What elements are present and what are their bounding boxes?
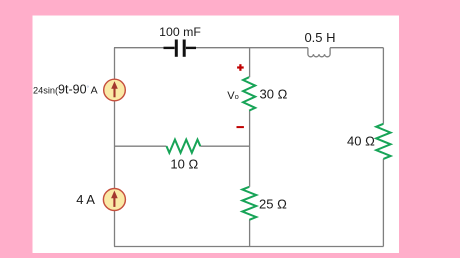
wire middle vertical top segment <box>249 48 251 77</box>
resistor R 25 ohm <box>242 187 256 220</box>
inductor L1 0.5 H <box>308 48 330 57</box>
svg-text:10 Ω: 10 Ω <box>170 156 198 171</box>
svg-text:40 Ω: 40 Ω <box>347 134 375 149</box>
plus sign polarity mark <box>237 64 244 71</box>
wire left vertical <box>114 48 116 247</box>
capacitor C1 100 mF <box>164 40 197 57</box>
wire right vertical upper <box>382 48 384 124</box>
resistor R 40 ohm <box>376 124 390 159</box>
svg-text:30 Ω: 30 Ω <box>260 87 288 102</box>
minus sign polarity mark <box>237 126 244 128</box>
wire top middle segment <box>196 47 308 49</box>
resistor R 30 ohm <box>243 77 255 110</box>
svg-text:0.5 H: 0.5 H <box>304 30 335 45</box>
svg-text:25 Ω: 25 Ω <box>259 196 287 211</box>
wire bottom <box>114 246 383 248</box>
wire top right segment <box>330 47 383 49</box>
current source I1 24sin(9t-90) A <box>104 79 126 101</box>
wire middle vertical bottom segment <box>249 220 251 247</box>
wire middle horizontal right of R 10 <box>200 145 249 147</box>
wire top left segment <box>114 47 166 49</box>
wire middle horizontal left of R 10 <box>115 145 167 147</box>
resistor R 10 ohm <box>167 140 201 153</box>
svg-text:4 A: 4 A <box>76 192 95 207</box>
svg-text:100 mF: 100 mF <box>159 25 201 39</box>
wire middle vertical between R30 and R25 <box>249 111 251 187</box>
current source I2 4 A <box>103 189 125 211</box>
wire right vertical lower <box>382 159 384 247</box>
svg-text:Vo: Vo <box>227 90 239 102</box>
